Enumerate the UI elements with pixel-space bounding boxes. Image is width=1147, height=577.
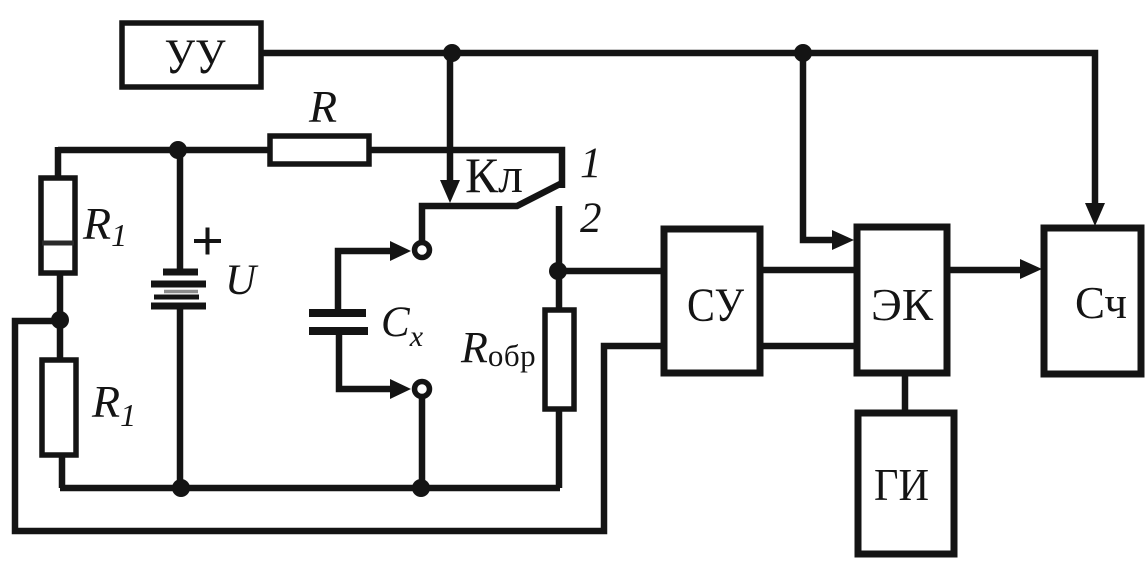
- wire: outer loop through bottom: [15, 321, 664, 531]
- svg-text:Rобр: Rобр: [460, 323, 536, 373]
- arrowhead: right into top circle: [390, 241, 411, 261]
- arrowhead: down into Сч top: [1085, 203, 1105, 226]
- battery U plates: [151, 272, 206, 306]
- svg-text:R1: R1: [91, 376, 136, 433]
- wire: battery column bottom: [177, 306, 184, 488]
- smudge line inside R1 top: [42, 241, 74, 246]
- block СУ: [664, 229, 760, 373]
- svg-text:Cx: Cx: [381, 299, 424, 353]
- wire: left branch down to R1 top: [55, 147, 62, 180]
- wire: node to СУ input: [556, 268, 663, 275]
- junction node on top rail at ЭК drop: [794, 44, 812, 62]
- wire: СУ to ЭК lower: [761, 343, 857, 350]
- wire: Cx bottom lead with arrow line: [339, 334, 391, 389]
- svg-text:1: 1: [580, 140, 602, 187]
- capacitor Cx plates: [309, 313, 368, 331]
- wire: battery column top: [177, 147, 184, 272]
- resistor R1 top: [41, 178, 75, 273]
- svg-text:Кл: Кл: [465, 147, 523, 203]
- junction node between R1 resistors: [51, 311, 69, 329]
- svg-text:СУ: СУ: [687, 279, 744, 332]
- arrowhead: right into Сч: [1020, 259, 1042, 279]
- wire: СУ to ЭК middle: [761, 267, 857, 274]
- wire: R1 junction column: [57, 271, 64, 358]
- wire: control drop to ЭК arrow: [803, 50, 834, 240]
- svg-text:ГИ: ГИ: [874, 459, 929, 510]
- junction node R row left: [169, 141, 187, 159]
- block ГИ: [858, 413, 954, 554]
- arrowhead: right into bottom circle: [390, 379, 411, 399]
- wire: control drop to switch arrow: [447, 50, 454, 181]
- wire: contact 2 down through node to Rобр: [556, 206, 563, 312]
- wire: top rail from УУ to Сч drop: [261, 53, 1095, 204]
- svg-text:Сч: Сч: [1075, 277, 1127, 328]
- wire: Cx top lead with arrow line: [338, 251, 391, 310]
- block УУ: [122, 23, 261, 87]
- junction node contact 2 to СУ: [549, 262, 567, 280]
- svg-text:УУ: УУ: [165, 28, 227, 84]
- wire: pole below bottom circle: [419, 398, 426, 488]
- block ЭК: [857, 227, 947, 373]
- svg-text:R: R: [308, 81, 337, 132]
- switch contact circle top: [415, 243, 430, 258]
- resistor Rобр: [545, 310, 574, 409]
- switch blade Кл: [422, 183, 562, 242]
- label + battery: [194, 228, 221, 255]
- wire: ЭК to ГИ stub: [902, 373, 909, 413]
- block Сч: [1044, 228, 1141, 374]
- junction node battery bottom: [172, 479, 190, 497]
- svg-text:2: 2: [580, 195, 602, 242]
- junction node pole bottom rail: [412, 479, 430, 497]
- svg-text:R1: R1: [82, 198, 127, 253]
- wire: R1 bottom to inner rail: [59, 453, 66, 488]
- svg-text:ЭК: ЭК: [871, 279, 933, 330]
- resistor R1 bottom: [42, 360, 76, 455]
- wire: R row from left corner to contact 1: [58, 150, 562, 188]
- wire: inner bottom rail: [60, 485, 560, 492]
- junction node on top rail at switch drop: [443, 44, 461, 62]
- arrowhead: down onto switch blade: [440, 180, 460, 203]
- wire: ЭК to Сч arrow line: [946, 267, 1021, 274]
- arrowhead: right into ЭК: [832, 230, 854, 250]
- resistor R: [270, 136, 369, 164]
- switch contact circle bottom: [415, 382, 430, 397]
- svg-text:U: U: [225, 257, 259, 304]
- wire: Rобр bottom to inner rail: [556, 407, 563, 488]
